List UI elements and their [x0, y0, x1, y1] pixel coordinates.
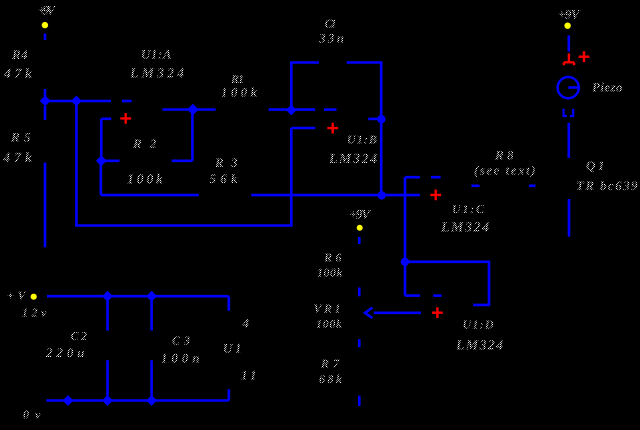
svg-text:U1:D: U1:D [463, 318, 494, 332]
svg-text:U1:B: U1:B [347, 133, 377, 147]
wire R6 to VR1 [358, 288, 361, 297]
svg-text:LM324: LM324 [455, 339, 503, 354]
wire U1:D feedback loop top [405, 260, 489, 263]
svg-text:33n: 33n [318, 31, 344, 46]
wire U1:D output stub [473, 304, 490, 307]
power +9V top-left node [42, 22, 48, 28]
svg-text:U1: U1 [223, 341, 242, 356]
wire +V supply rail with U1 pin4 bracket [47, 296, 229, 311]
node junction C2 top [103, 292, 112, 301]
power +9V mid node [357, 225, 363, 231]
svg-text:100k: 100k [316, 317, 342, 331]
wire U1:B + input stub [291, 127, 315, 130]
op-amp U1:B plus marker [327, 123, 338, 134]
wire U1:A output to R1 [163, 108, 216, 111]
op-amp U1:C minus marker [431, 176, 441, 179]
piezo bottom terminal bracket [564, 109, 574, 116]
svg-text:12v: 12v [22, 306, 47, 320]
node junction R1/C1 [287, 105, 296, 114]
wire U1:C - input stub [405, 176, 420, 179]
svg-text:LM324: LM324 [440, 221, 489, 236]
svg-text:56k: 56k [210, 171, 239, 186]
op-amp U1:D plus marker [432, 307, 443, 318]
wire R2 right vertical to U1:A output [191, 110, 194, 161]
svg-text:(see text): (see text) [474, 163, 536, 178]
wire U1:A + input down to R2 node [100, 119, 103, 161]
wire Vref rail [44, 100, 111, 103]
wire horizontal Vref to U1:B + [75, 224, 291, 227]
svg-text:C1: C1 [325, 17, 337, 31]
piezo positive terminal mark [564, 53, 574, 65]
capacitor C2 top lead wire [106, 296, 109, 330]
node junction Vref rail tap [72, 96, 81, 105]
wire VR1 wiper to U1:D + input [374, 311, 421, 314]
wire piezo to Q1 collector [567, 123, 570, 158]
resistor R2 right lead wire [172, 160, 193, 163]
svg-text:+9V: +9V [350, 207, 372, 222]
wire +9V to piezo [567, 35, 570, 51]
wire C1 right vertical down through output node [380, 61, 383, 195]
svg-text:U1:A: U1:A [141, 47, 172, 62]
resistor R3 right lead rail to U1:C + input [251, 194, 419, 197]
resistor R8 left lead (U1:C output) [471, 185, 479, 188]
wire U1:A + input stub [101, 118, 111, 121]
wire vertical up to U1:B + input [290, 128, 293, 227]
capacitor C1 top right lead wire [347, 61, 382, 64]
op-amp U1:D minus marker [433, 294, 441, 297]
wire U1:B output stub [368, 118, 378, 121]
resistor R4 lower lead wire [44, 89, 47, 101]
svg-text:4: 4 [242, 316, 250, 331]
svg-text:LM324: LM324 [328, 152, 377, 167]
svg-text:VR1: VR1 [314, 302, 341, 316]
wire R2 node down to R3 rail [100, 161, 103, 195]
node junction U1:B output on R3 rail (round) [378, 191, 386, 199]
resistor R5 upper lead wire [44, 106, 47, 120]
wire U1:C - input down to U1:D feedback node [404, 177, 407, 295]
capacitor C1 top left lead wire [290, 61, 319, 64]
node junction C2 bottom [103, 396, 112, 405]
node junction C3 top [147, 292, 156, 301]
op-amp U1:A plus marker [120, 113, 131, 124]
wire vertical from Vref tap down [75, 101, 78, 226]
piezo sounder BZ body circle [558, 77, 579, 98]
wire VR1 to R7 [358, 339, 361, 347]
node junction 0v rail left [63, 396, 72, 405]
resistor R3 left lead wire [101, 194, 199, 197]
capacitor C1 left vertical wire [290, 63, 293, 107]
node junction at R4/R5 [41, 96, 50, 105]
resistor R5 lower lead wire [44, 163, 47, 248]
node junction U1:B output (round) [377, 115, 385, 123]
capacitor C3 top lead wire [150, 296, 153, 330]
svg-text:47k: 47k [3, 67, 32, 82]
wire from +9V to R4 [44, 34, 47, 41]
wire +9V to R6 [358, 237, 361, 244]
power +9V right node [564, 23, 570, 29]
svg-text:+9V: +9V [38, 3, 56, 18]
node junction U1:D feedback (round) [401, 258, 409, 266]
resistor R7 bottom lead wire [358, 396, 361, 406]
op-amp U1:C plus marker [430, 190, 441, 201]
power +V 12v node [31, 294, 37, 300]
node junction U1:A output [188, 105, 198, 115]
svg-text:Piezo: Piezo [592, 80, 623, 95]
op-amp U1:B minus marker [324, 108, 337, 111]
node junction C3 bottom [147, 396, 156, 405]
resistor R8 right lead to Q1 base [529, 185, 536, 188]
op-amp U1:A minus marker [122, 100, 132, 103]
capacitor C2 bottom lead wire [106, 360, 109, 400]
svg-text:+9V: +9V [558, 7, 581, 22]
capacitor C3 bottom lead wire [150, 360, 153, 400]
transistor Q1 emitter wire [568, 199, 571, 237]
piezo plus polarity marker [579, 51, 590, 62]
svg-text:47k: 47k [2, 151, 32, 166]
wire 0v rail with U1 pin11 bracket [46, 389, 229, 400]
wire U1:D - input stub [405, 294, 420, 297]
svg-text:+V: +V [7, 289, 26, 303]
potentiometer VR1 wiper arrow [365, 308, 373, 319]
resistor R2 left lead wire [101, 160, 119, 163]
svg-text:68k: 68k [319, 372, 342, 386]
wire U1:D feedback loop right vertical [488, 261, 491, 305]
svg-text:100k: 100k [317, 266, 343, 280]
svg-text:R4: R4 [11, 47, 28, 62]
resistor R1 right lead to U1:B - input [269, 108, 316, 111]
svg-text:Q1: Q1 [586, 158, 605, 173]
piezo radius line [568, 86, 578, 89]
node junction at R2 left [97, 156, 106, 165]
